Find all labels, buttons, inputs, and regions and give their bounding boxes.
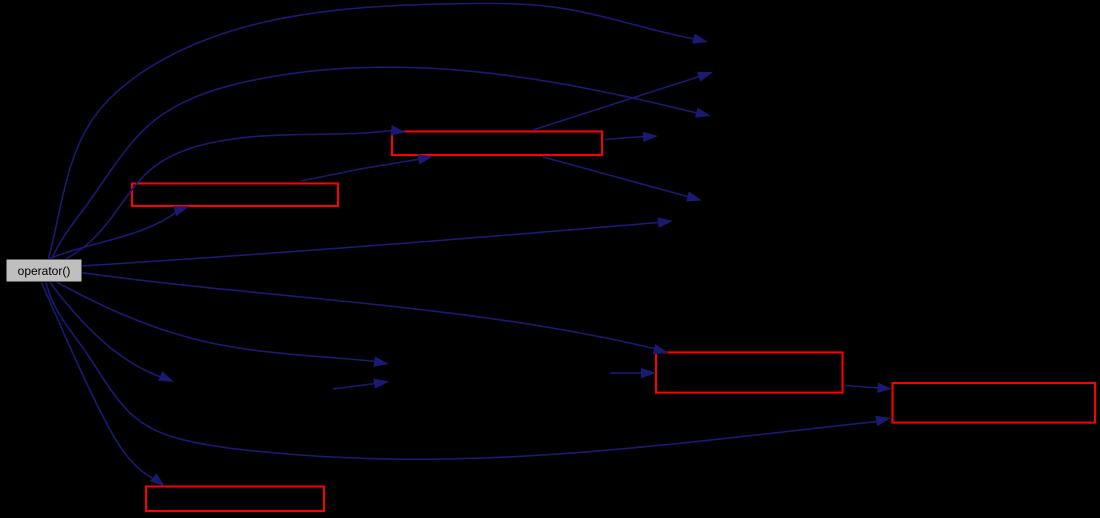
edge operator to node I	[50, 282, 174, 382]
edge box2 to box1	[301, 154, 433, 181]
edge box3 to box4	[845, 383, 893, 393]
edge operator to box2	[48, 206, 189, 259]
edge operator to box4	[46, 282, 891, 459]
node box5 (red outline)	[146, 487, 324, 512]
node box2 (red outline)	[132, 184, 338, 207]
edge operator to node A	[48, 3, 708, 259]
edge operator to node C	[52, 67, 711, 259]
edge operator to box5	[41, 282, 165, 486]
node box4 (red outline)	[893, 383, 1096, 423]
edge operator to box3	[82, 273, 668, 355]
edge box1 to node B	[533, 72, 713, 130]
edge stub to box3	[610, 368, 656, 378]
edge box1 to node D	[605, 132, 658, 142]
edge stub to node H	[333, 378, 389, 389]
svg-text:operator(): operator()	[18, 264, 71, 278]
node operator() (gray fill)	[6, 259, 82, 282]
edge operator to box1	[66, 125, 406, 258]
edge operator to node F	[82, 217, 673, 266]
edge box1 to node E	[543, 157, 702, 202]
node box1 (red outline)	[392, 132, 602, 156]
node box3 (red outline)	[656, 352, 843, 392]
edge operator to node G	[55, 281, 390, 367]
